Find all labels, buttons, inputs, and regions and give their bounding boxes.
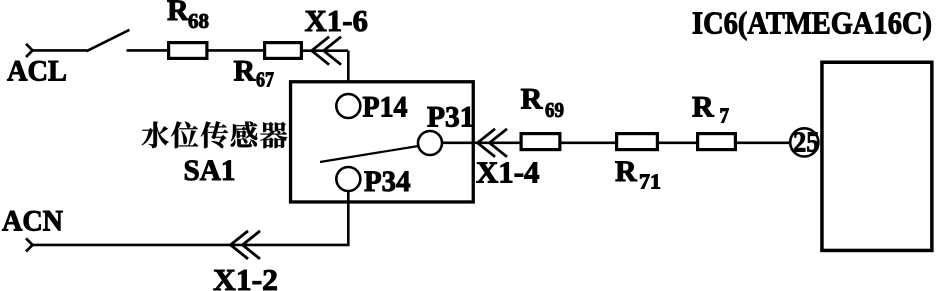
svg-text:68: 68 [188,9,209,33]
svg-text:7: 7 [720,104,730,128]
svg-text:25: 25 [793,127,820,158]
svg-text:P31: P31 [427,101,475,134]
svg-text:IC6(ATMEGA16C): IC6(ATMEGA16C) [692,5,932,41]
svg-text:R: R [234,55,256,88]
svg-text:69: 69 [545,98,564,122]
svg-text:R: R [692,91,714,124]
svg-text:R: R [521,83,543,116]
svg-text:P14: P14 [363,91,408,124]
svg-text:P34: P34 [364,165,411,198]
svg-text:R: R [167,0,189,27]
svg-text:X1-6: X1-6 [305,3,369,38]
svg-text:SA1: SA1 [184,154,236,187]
svg-text:ACL: ACL [7,55,67,88]
svg-text:71: 71 [639,170,661,194]
svg-text:67: 67 [256,68,274,92]
svg-text:R: R [615,155,637,188]
svg-text:ACN: ACN [2,205,63,238]
svg-text:X1-2: X1-2 [213,262,278,291]
svg-text:X1-4: X1-4 [476,155,540,190]
